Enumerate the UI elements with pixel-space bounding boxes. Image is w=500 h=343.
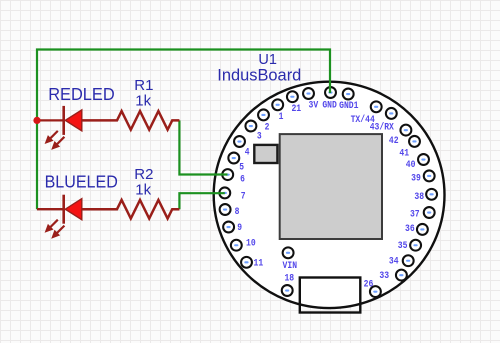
svg-text:7: 7 (241, 191, 246, 202)
LED REDLED: emission arrow 2 (51, 137, 64, 150)
pin VIN (283, 247, 298, 271)
LED BLUELED: emission arrow 1 (45, 220, 58, 233)
pin 21 (287, 91, 301, 115)
svg-text:3V: 3V (309, 101, 319, 112)
pin 7 (219, 187, 245, 202)
svg-text:1k: 1k (135, 181, 151, 198)
pin 1 (272, 99, 283, 123)
pin 35 (398, 240, 421, 252)
svg-text:6: 6 (240, 174, 245, 185)
svg-text:38: 38 (414, 192, 424, 203)
pin GND1 (339, 89, 358, 112)
LED REDLED: cathode bar (62, 106, 65, 135)
svg-text:3: 3 (257, 132, 262, 143)
pin 8 (220, 204, 240, 218)
svg-text:4: 4 (245, 148, 250, 159)
pin 36 (405, 224, 428, 235)
svg-text:34: 34 (389, 256, 399, 267)
svg-text:11: 11 (254, 259, 264, 270)
pin 11 (241, 257, 263, 270)
svg-text:9: 9 (237, 223, 242, 234)
pin 6 (222, 169, 245, 185)
svg-text:21: 21 (291, 104, 301, 115)
svg-text:BLUELED: BLUELED (45, 172, 118, 192)
svg-text:18: 18 (284, 274, 294, 285)
wire: REDLED cathode lead (37, 119, 64, 121)
svg-text:VIN: VIN (283, 261, 298, 272)
LED REDLED: emission arrow 1 (45, 131, 58, 144)
svg-text:IndusBoard: IndusBoard (217, 65, 301, 84)
pin 43/RX (370, 108, 397, 134)
pin 39 (411, 170, 435, 184)
node: junction on GND net at REDLED (33, 117, 40, 124)
wire: R2 output to pin 7 (179, 193, 224, 209)
pin 34 (389, 255, 414, 267)
pin 2 (258, 109, 269, 133)
LED REDLED: triangle (65, 110, 82, 131)
pin 18 (282, 274, 294, 296)
svg-text:37: 37 (410, 210, 420, 221)
svg-text:REDLED: REDLED (48, 84, 115, 104)
pin 10 (231, 239, 256, 251)
svg-text:2: 2 (265, 123, 270, 134)
pin 9 (223, 222, 242, 234)
LED BLUELED: cathode bar (62, 195, 65, 224)
small component block on board (254, 145, 277, 163)
LED BLUELED: triangle (65, 199, 82, 220)
pin 5 (228, 153, 244, 174)
pin GND (322, 87, 337, 112)
pin 4 (234, 136, 250, 159)
resistor R1 (82, 111, 180, 130)
pin 41 (399, 136, 420, 159)
chip block on board (280, 134, 382, 239)
svg-text:35: 35 (398, 241, 408, 252)
svg-text:8: 8 (235, 207, 240, 218)
pin 38 (414, 189, 437, 203)
svg-text:10: 10 (246, 239, 256, 250)
pin TX/44 (351, 101, 382, 126)
wire: R1 output to pin 6 (179, 120, 227, 174)
svg-text:42: 42 (389, 136, 399, 147)
board U1 outline (214, 82, 445, 308)
svg-text:1k: 1k (135, 93, 151, 110)
pin 37 (410, 207, 435, 221)
svg-text:5: 5 (239, 163, 244, 174)
svg-text:GND1: GND1 (339, 101, 358, 112)
pin 26 (364, 280, 381, 298)
svg-text:1: 1 (279, 112, 284, 123)
svg-text:43/RX: 43/RX (370, 122, 395, 134)
svg-text:40: 40 (406, 160, 416, 171)
svg-text:R2: R2 (134, 166, 153, 183)
pin 33 (379, 270, 406, 282)
LED BLUELED: emission arrow 2 (51, 226, 64, 239)
wire: BLUELED cathode lead (37, 208, 64, 210)
svg-text:41: 41 (399, 148, 409, 159)
pin 3 (245, 121, 261, 143)
pin 40 (406, 154, 429, 171)
svg-text:R1: R1 (134, 77, 153, 94)
wire: GND net from top-left corner to GND pin (37, 50, 330, 210)
svg-text:36: 36 (405, 224, 415, 235)
resistor R2 (82, 200, 180, 219)
pin 42 (389, 125, 411, 147)
svg-text:GND: GND (322, 101, 337, 112)
USB connector (300, 278, 361, 313)
pin 3V (303, 88, 319, 112)
svg-text:33: 33 (379, 271, 389, 282)
svg-text:26: 26 (364, 280, 374, 291)
svg-text:39: 39 (411, 173, 421, 184)
